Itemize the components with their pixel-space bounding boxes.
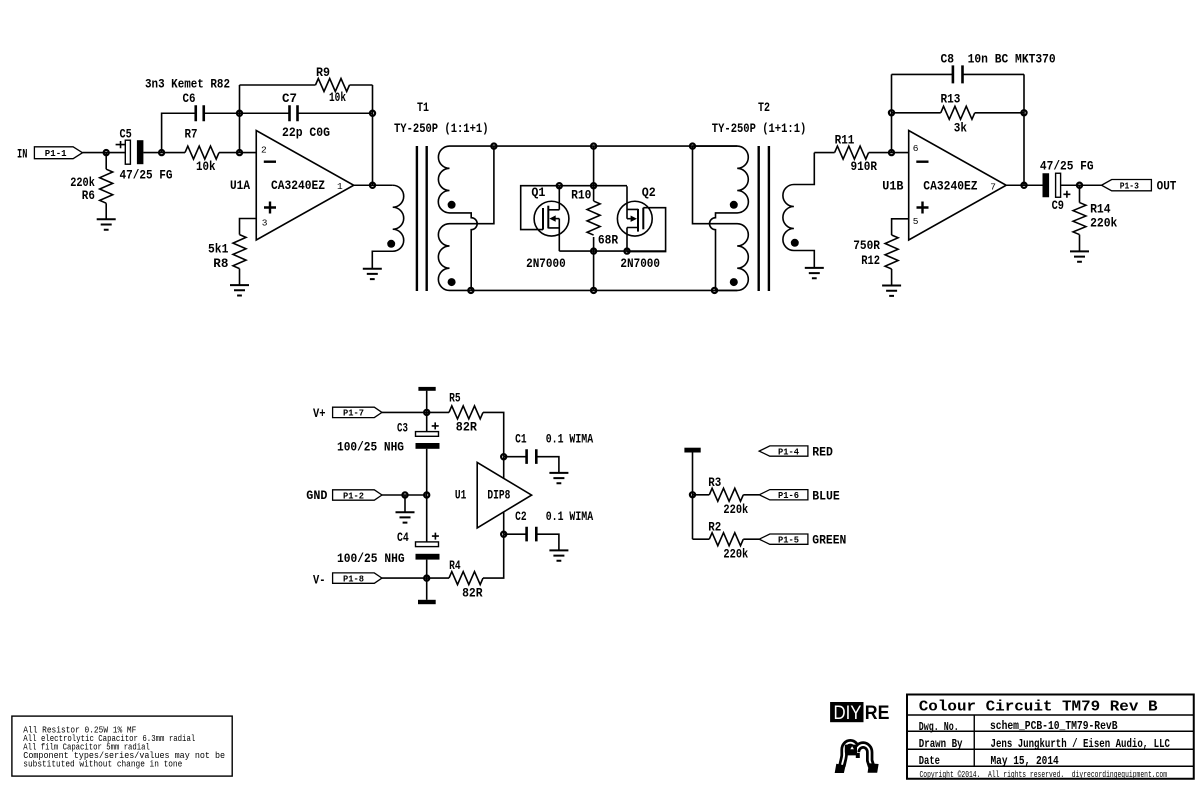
resistor R13 3k [892, 91, 1025, 135]
svg-text:schem_PCB-10_TM79-RevB: schem_PCB-10_TM79-RevB [990, 719, 1118, 733]
svg-text:0.1 WIMA: 0.1 WIMA [546, 509, 594, 524]
svg-text:47/25 FG: 47/25 FG [1040, 159, 1094, 174]
node R10 top [591, 183, 596, 188]
svg-text:C1: C1 [515, 431, 527, 446]
connector P1-8 V- [313, 572, 382, 587]
connector P1-3 OUT [1102, 178, 1177, 193]
svg-text:R11: R11 [835, 132, 855, 147]
ground under T1 primary [363, 269, 382, 279]
resistor R3 220k [693, 475, 760, 517]
wire P1-2 to nodes [382, 494, 427, 496]
svg-text:P1-5: P1-5 [778, 534, 799, 545]
svg-text:P1-7: P1-7 [343, 408, 364, 419]
T1 secondary 2 polarity dot [448, 278, 456, 286]
svg-text:220k: 220k [1090, 215, 1117, 230]
svg-text:DIP8: DIP8 [487, 487, 510, 502]
svg-text:CA3240EZ: CA3240EZ [271, 178, 325, 193]
resistor R9 10k feedback [240, 65, 373, 185]
svg-text:P1-8: P1-8 [343, 573, 364, 584]
svg-text:Colour Circuit TM79 Rev B: Colour Circuit TM79 Rev B [919, 698, 1158, 715]
wire pin5 to R12 [892, 219, 909, 235]
svg-text:U1B: U1B [882, 179, 903, 194]
svg-text:R3: R3 [708, 475, 721, 490]
wire feedback verticals [892, 74, 1025, 185]
svg-text:6: 6 [913, 143, 919, 154]
svg-text:82R: 82R [462, 586, 483, 601]
svg-text:5: 5 [913, 216, 919, 227]
svg-text:22p C0G: 22p C0G [282, 125, 330, 140]
svg-text:68R: 68R [598, 232, 618, 247]
bottom rail [471, 289, 737, 291]
svg-text:C8 10n BC MKT370: C8 10n BC MKT370 [941, 52, 1056, 67]
svg-text:U1: U1 [455, 487, 467, 502]
capacitor C2 0.1 WIMA [504, 509, 594, 551]
svg-text:R7: R7 [185, 127, 198, 142]
svg-text:OUT: OUT [1157, 178, 1177, 193]
svg-text:Copyright ©2014. All rights r: Copyright ©2014. All rights reserved. di… [920, 770, 1168, 780]
svg-text:substituted without change in: substituted without change in tone [23, 760, 182, 770]
top rail bar [684, 448, 700, 453]
ground under R6 [97, 219, 116, 229]
wire U1A output to T1 [354, 184, 393, 186]
ground under R14 [1070, 251, 1089, 261]
svg-text:2N7000: 2N7000 [526, 256, 566, 271]
svg-text:C4: C4 [397, 530, 409, 545]
node T1 bottom [468, 288, 473, 293]
svg-text:May 15, 2014: May 15, 2014 [991, 754, 1059, 768]
svg-text:47/25 FG: 47/25 FG [120, 168, 173, 183]
svg-text:U1A: U1A [230, 178, 250, 193]
svg-text:GREEN: GREEN [812, 533, 846, 548]
svg-text:R2: R2 [708, 519, 721, 534]
svg-text:T2: T2 [758, 100, 770, 115]
op-amp U1 DIP8 power [455, 462, 532, 528]
svg-text:Date: Date [919, 754, 940, 768]
T1 core [417, 146, 427, 291]
T1 secondary 1 polarity dot [448, 201, 456, 209]
FET bottom link [559, 250, 665, 252]
resistor R12 750R [853, 235, 898, 286]
pin stubs into DIP8 [503, 457, 505, 535]
svg-text:10k: 10k [196, 159, 216, 174]
node C6/C7 junction [237, 111, 242, 116]
svg-text:Jens Jungkurth / Eisen Audio,: Jens Jungkurth / Eisen Audio, LLC [991, 737, 1171, 751]
T2 secondary winding 1 [693, 146, 749, 290]
Eisen Audio logo [835, 743, 879, 773]
ground under C2 [549, 550, 568, 560]
svg-text:C6: C6 [183, 91, 196, 106]
node U1 V+ pin [501, 454, 506, 459]
svg-text:C5: C5 [120, 126, 132, 141]
ground under C1 [549, 473, 568, 483]
capacitor C3 100/25 [337, 412, 440, 495]
svg-text:V+: V+ [313, 406, 326, 421]
svg-text:100/25 NHG: 100/25 NHG [337, 440, 404, 455]
node R13 left [889, 110, 894, 115]
svg-text:2: 2 [261, 144, 267, 155]
svg-text:T1: T1 [417, 100, 429, 115]
node output/R14 [1077, 183, 1082, 188]
svg-text:750R: 750R [853, 238, 880, 253]
svg-text:RED: RED [812, 445, 833, 460]
resistor R10 68R [571, 187, 618, 247]
node GND right [424, 492, 429, 497]
capacitor C1 0.1 WIMA [504, 431, 594, 473]
svg-text:3: 3 [262, 217, 268, 228]
connector P1-2 GND [306, 488, 382, 503]
svg-text:C2: C2 [515, 509, 527, 524]
T2 secondary winding 2 [693, 146, 749, 290]
T2 core [759, 146, 769, 291]
op-amp U1B CA3240EZ [882, 131, 1006, 241]
node R3/R2 branch [690, 492, 695, 497]
svg-text:82R: 82R [456, 419, 477, 434]
wire node2 up to C6 row [162, 113, 196, 152]
svg-text:P1-3: P1-3 [1120, 181, 1139, 192]
wire P1-7 to node [382, 411, 449, 413]
svg-text:3n3 Kemet R82: 3n3 Kemet R82 [145, 76, 230, 91]
svg-text:IN: IN [17, 146, 27, 161]
resistor R5 82R [449, 391, 504, 457]
svg-text:C3: C3 [397, 420, 408, 435]
svg-text:Dwg. No.: Dwg. No. [919, 720, 959, 734]
connector P1-1 IN [17, 146, 83, 161]
T2 primary winding [783, 153, 814, 268]
vertical to R10 [593, 146, 595, 290]
connector P1-5 GREEN [759, 533, 846, 548]
connector P1-7 V+ [313, 406, 382, 421]
V+ rail bar [426, 391, 428, 413]
FET top link [559, 185, 627, 187]
ground under R12 [882, 286, 901, 296]
node U1 V- pin [501, 532, 506, 537]
top rail [494, 145, 737, 147]
capacitor C6 3n3 [145, 76, 230, 121]
svg-text:Q2: Q2 [642, 185, 656, 200]
svg-text:1: 1 [337, 181, 343, 192]
svg-text:P1-4: P1-4 [778, 446, 799, 457]
transistor Q2 2N7000 [617, 186, 665, 251]
svg-text:BLUE: BLUE [812, 488, 840, 503]
svg-text:R9: R9 [316, 65, 330, 80]
svg-text:Drawn By: Drawn By [919, 737, 963, 751]
svg-text:R10: R10 [571, 187, 591, 202]
ground under R8 [230, 285, 249, 295]
svg-text:R12: R12 [861, 253, 880, 268]
svg-text:Q1: Q1 [531, 185, 545, 200]
resistor R6 220k [70, 153, 113, 220]
node T2 top [690, 144, 695, 149]
capacitor C5 47/25 FG [116, 126, 173, 182]
svg-text:2N7000: 2N7000 [620, 256, 660, 271]
svg-text:R13: R13 [941, 91, 961, 106]
wire C9 to output node [1061, 184, 1102, 186]
node R10 bottom [591, 249, 596, 254]
resistor R2 220k [693, 519, 760, 561]
resistor R8 5k1 [208, 235, 246, 286]
svg-text:P1-6: P1-6 [778, 490, 799, 501]
svg-text:RE: RE [865, 703, 890, 724]
wire P1-1 to node [83, 152, 126, 154]
svg-text:R4: R4 [449, 558, 461, 573]
svg-text:910R: 910R [851, 159, 878, 174]
svg-text:C7: C7 [282, 91, 297, 106]
wire P1-8 to node [382, 577, 449, 579]
op-amp U1A CA3240EZ [230, 131, 354, 241]
node Q1 drain [557, 183, 562, 188]
capacitor C9 47/25 FG [1040, 159, 1094, 214]
resistor R7 10k [185, 127, 257, 175]
svg-text:5k1: 5k1 [208, 242, 229, 257]
node Q2 drain [624, 249, 629, 254]
svg-text:P1-1: P1-1 [45, 148, 67, 159]
svg-text:V-: V- [313, 572, 326, 587]
svg-text:3k: 3k [954, 120, 967, 135]
node GND left [402, 492, 407, 497]
node T2 bottom [712, 288, 717, 293]
node U1A output [370, 183, 375, 188]
connector P1-6 BLUE [759, 488, 840, 503]
node C7 right [370, 111, 375, 116]
svg-text:C9: C9 [1052, 198, 1065, 213]
svg-text:DIY: DIY [834, 703, 862, 724]
resistor R11 910R [814, 132, 908, 174]
resistor R14 220k [1073, 185, 1118, 251]
T1 secondary winding 2 [438, 146, 494, 290]
node top rail center [591, 144, 596, 149]
T1 primary winding [372, 185, 403, 268]
node input [104, 150, 109, 155]
node U1B pin6 [889, 150, 894, 155]
node U1A pin2 [237, 150, 242, 155]
svg-text:CA3240EZ: CA3240EZ [923, 179, 977, 194]
node bottom rail center [591, 288, 596, 293]
wire C5 to node2 [143, 152, 185, 154]
node C5/R7/C6 branch [159, 150, 164, 155]
svg-text:220k: 220k [723, 546, 748, 561]
V- rail bar [426, 578, 428, 600]
capacitor C4 100/25 [337, 495, 440, 578]
capacitor C8 10n [892, 52, 1056, 84]
wire U1B output [1006, 184, 1042, 186]
svg-text:P1-2: P1-2 [343, 490, 364, 501]
svg-text:TY-250P (1:1+1): TY-250P (1:1+1) [394, 121, 489, 136]
svg-text:100/25 NHG: 100/25 NHG [337, 551, 405, 566]
transistor Q1 2N7000 [521, 185, 569, 271]
node R13 right [1021, 110, 1026, 115]
T1 primary polarity dot [387, 240, 395, 248]
connector P1-4 RED [759, 445, 833, 460]
node U1B output [1021, 183, 1026, 188]
svg-text:220k: 220k [723, 502, 748, 517]
wire C6 to node3 [204, 112, 240, 114]
svg-text:R5: R5 [449, 391, 461, 406]
resistor R4 82R [449, 534, 504, 601]
T1 secondary winding 1 [438, 146, 494, 290]
svg-text:R8: R8 [213, 256, 228, 271]
ground under P1-2 [404, 495, 406, 512]
node T1 top [491, 144, 496, 149]
wire pin3 to R8 [240, 219, 257, 235]
svg-text:7: 7 [990, 182, 996, 193]
svg-text:10k: 10k [329, 90, 346, 105]
node V+ [424, 410, 429, 415]
wire node3 to node4 vertical [239, 85, 241, 153]
node V- [424, 576, 429, 581]
svg-text:GND: GND [306, 488, 327, 503]
svg-text:TY-250P (1+1:1): TY-250P (1+1:1) [712, 121, 807, 136]
svg-text:R6: R6 [82, 188, 95, 203]
capacitor C7 22p C0G [240, 91, 373, 140]
ground under T2 primary [805, 268, 824, 278]
svg-text:0.1 WIMA: 0.1 WIMA [546, 431, 594, 446]
